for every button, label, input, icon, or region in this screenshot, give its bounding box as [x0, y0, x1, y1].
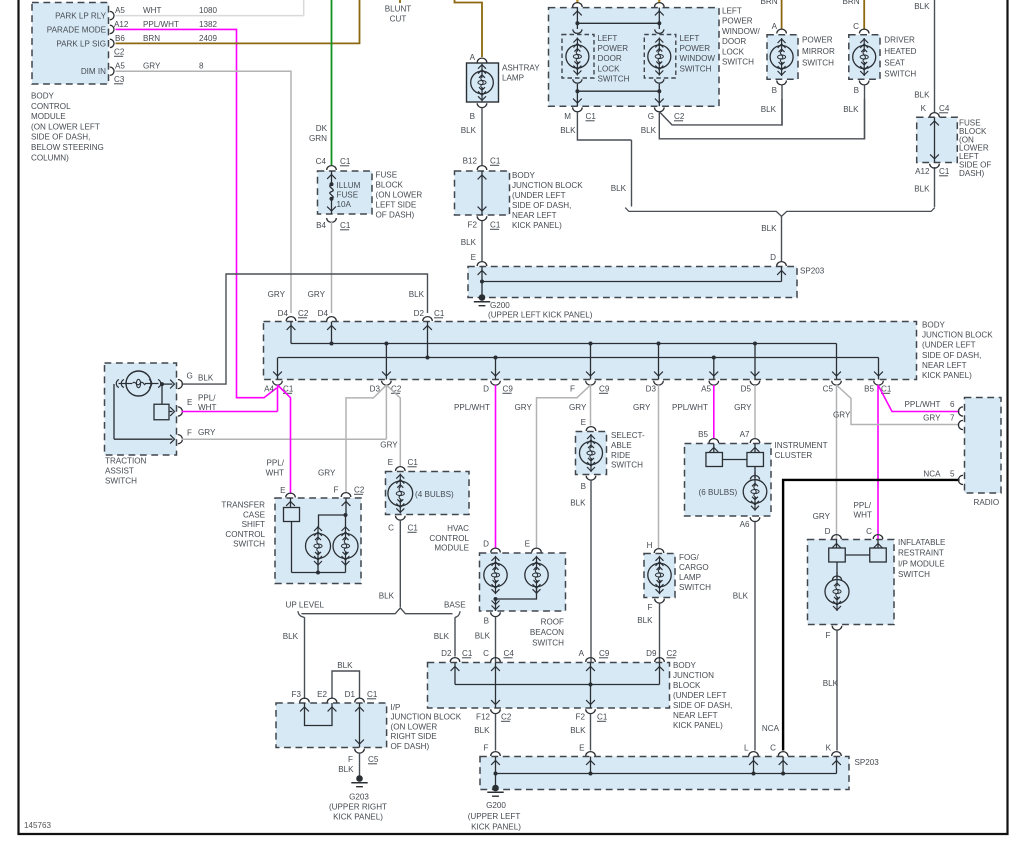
svg-text:POWER: POWER — [802, 36, 833, 45]
svg-text:A5: A5 — [115, 62, 125, 71]
svg-text:F3: F3 — [292, 690, 302, 699]
svg-text:SWITCH: SWITCH — [532, 638, 564, 647]
svg-text:C1: C1 — [462, 649, 473, 658]
svg-text:H: H — [647, 541, 653, 550]
svg-text:LAMP: LAMP — [679, 573, 701, 582]
svg-text:C5: C5 — [368, 755, 379, 764]
svg-text:F2: F2 — [468, 221, 478, 230]
svg-text:A: A — [470, 53, 476, 62]
svg-text:F2: F2 — [576, 713, 586, 722]
svg-text:G200: G200 — [486, 801, 506, 810]
svg-text:C: C — [866, 527, 872, 536]
svg-text:RIDE: RIDE — [611, 451, 631, 460]
svg-text:SP203: SP203 — [800, 267, 825, 276]
svg-text:DOOR: DOOR — [722, 37, 746, 46]
svg-text:ASSIST: ASSIST — [105, 467, 134, 476]
svg-text:C2: C2 — [674, 112, 685, 121]
svg-text:(UPPER RIGHT: (UPPER RIGHT — [329, 803, 387, 812]
svg-text:B: B — [772, 86, 777, 95]
svg-text:2409: 2409 — [199, 34, 218, 43]
svg-text:BLK: BLK — [761, 224, 777, 233]
svg-text:POWER: POWER — [680, 44, 711, 53]
svg-text:A12: A12 — [915, 167, 930, 176]
svg-text:WHT: WHT — [266, 468, 284, 477]
svg-text:G: G — [648, 112, 654, 121]
svg-text:SEAT: SEAT — [884, 58, 905, 67]
svg-text:PPL/: PPL/ — [854, 501, 872, 510]
svg-text:A5: A5 — [701, 385, 711, 394]
svg-text:E: E — [581, 418, 587, 427]
svg-text:C1: C1 — [340, 221, 351, 230]
svg-text:MODULE: MODULE — [434, 544, 469, 553]
svg-text:E: E — [187, 398, 193, 407]
svg-text:BODY: BODY — [922, 321, 946, 330]
svg-text:ASHTRAY: ASHTRAY — [502, 64, 540, 73]
svg-text:D4: D4 — [318, 309, 329, 318]
svg-text:BODY: BODY — [673, 661, 697, 670]
svg-text:A6: A6 — [740, 520, 750, 529]
svg-text:D5: D5 — [741, 385, 752, 394]
svg-text:C: C — [853, 22, 859, 31]
svg-text:JUNCTION BLOCK: JUNCTION BLOCK — [391, 713, 462, 722]
svg-text:D2: D2 — [441, 649, 452, 658]
svg-text:BLK: BLK — [461, 126, 477, 135]
svg-text:F: F — [348, 755, 353, 764]
svg-text:(UNDER LEFT: (UNDER LEFT — [922, 341, 976, 350]
svg-text:5: 5 — [950, 470, 955, 479]
svg-text:D: D — [483, 385, 489, 394]
svg-text:GRY: GRY — [633, 403, 651, 412]
svg-text:C: C — [770, 744, 776, 753]
svg-text:(ON LOWER LEFT: (ON LOWER LEFT — [31, 122, 100, 131]
svg-text:FUSE: FUSE — [337, 191, 359, 200]
svg-text:INSTRUMENT: INSTRUMENT — [775, 441, 828, 450]
svg-text:B5: B5 — [698, 430, 708, 439]
svg-text:KICK PANEL): KICK PANEL) — [471, 823, 521, 832]
svg-text:PARADE MODE: PARADE MODE — [47, 25, 107, 34]
svg-text:C1: C1 — [490, 221, 501, 230]
svg-text:BLOCK: BLOCK — [673, 681, 701, 690]
svg-text:WHT: WHT — [854, 511, 872, 520]
svg-text:BLK: BLK — [823, 679, 839, 688]
svg-text:BLK: BLK — [637, 616, 653, 625]
svg-text:BRN: BRN — [143, 34, 160, 43]
svg-text:RIGHT SIDE: RIGHT SIDE — [391, 732, 438, 741]
svg-text:(6 BULBS): (6 BULBS) — [699, 488, 738, 497]
svg-text:C9: C9 — [599, 649, 610, 658]
svg-text:BLUNT: BLUNT — [385, 5, 412, 14]
svg-text:D3: D3 — [646, 385, 657, 394]
svg-text:BLK: BLK — [761, 105, 777, 114]
svg-text:GRY: GRY — [308, 290, 326, 299]
svg-text:JUNCTION BLOCK: JUNCTION BLOCK — [512, 181, 583, 190]
svg-text:C: C — [483, 649, 489, 658]
svg-text:BLK: BLK — [379, 592, 395, 601]
svg-text:SIDE OF DASH,: SIDE OF DASH, — [673, 701, 732, 710]
svg-text:GRY: GRY — [143, 62, 161, 71]
svg-text:D: D — [483, 540, 489, 549]
svg-text:BLK: BLK — [914, 185, 930, 194]
svg-text:MODULE: MODULE — [31, 112, 66, 121]
svg-text:GRN: GRN — [309, 134, 327, 143]
svg-text:F: F — [570, 385, 575, 394]
svg-text:C9: C9 — [599, 385, 610, 394]
svg-text:TRANSFER: TRANSFER — [221, 501, 265, 510]
svg-text:C1: C1 — [490, 157, 501, 166]
svg-text:BLOCK: BLOCK — [376, 181, 404, 190]
svg-text:B4: B4 — [316, 221, 326, 230]
svg-text:CONTROL: CONTROL — [31, 102, 71, 111]
svg-text:E: E — [471, 253, 477, 262]
svg-text:F: F — [484, 744, 489, 753]
svg-text:CUT: CUT — [390, 15, 407, 24]
svg-text:D1: D1 — [345, 690, 356, 699]
svg-text:SWITCH: SWITCH — [679, 583, 711, 592]
svg-text:C2: C2 — [298, 309, 309, 318]
svg-text:PPL/: PPL/ — [266, 459, 284, 468]
svg-text:SWITCH: SWITCH — [611, 461, 643, 470]
svg-text:DK: DK — [316, 124, 328, 133]
svg-text:C4: C4 — [939, 104, 950, 113]
svg-text:BLK: BLK — [914, 2, 930, 11]
svg-text:BLK: BLK — [283, 632, 299, 641]
svg-text:PPL/WHT: PPL/WHT — [454, 403, 490, 412]
svg-text:F: F — [187, 429, 192, 438]
svg-text:C1: C1 — [367, 690, 378, 699]
svg-text:10A: 10A — [337, 200, 352, 209]
svg-text:BLK: BLK — [641, 126, 657, 135]
svg-text:ABLE: ABLE — [611, 441, 632, 450]
svg-text:WINDOW: WINDOW — [680, 54, 716, 63]
svg-text:BLK: BLK — [461, 238, 477, 247]
svg-text:C2: C2 — [667, 649, 678, 658]
svg-text:DIM IN: DIM IN — [81, 67, 106, 76]
svg-text:SHIFT: SHIFT — [242, 520, 265, 529]
svg-text:A12: A12 — [114, 20, 129, 29]
svg-text:BLK: BLK — [733, 592, 749, 601]
svg-text:E2: E2 — [317, 690, 327, 699]
svg-text:B: B — [470, 112, 475, 121]
svg-text:C2: C2 — [501, 713, 512, 722]
svg-text:KICK PANEL): KICK PANEL) — [673, 721, 723, 730]
svg-text:HEATED: HEATED — [884, 47, 916, 56]
svg-text:BLK: BLK — [570, 499, 586, 508]
svg-text:SIDE OF DASH,: SIDE OF DASH, — [31, 133, 90, 142]
svg-text:BLK: BLK — [198, 374, 214, 383]
svg-text:BLK: BLK — [338, 765, 354, 774]
svg-text:CARGO: CARGO — [679, 563, 709, 572]
svg-text:PARK LP SIG: PARK LP SIG — [56, 39, 106, 48]
svg-text:BLK: BLK — [611, 184, 627, 193]
svg-text:ILLUM: ILLUM — [337, 181, 361, 190]
svg-text:GRY: GRY — [198, 428, 216, 437]
svg-text:GRY: GRY — [923, 414, 941, 423]
svg-text:BLK: BLK — [560, 126, 576, 135]
svg-text:WHT: WHT — [143, 6, 161, 15]
svg-text:FOG/: FOG/ — [679, 553, 700, 562]
svg-text:G203: G203 — [349, 793, 369, 802]
svg-text:C3: C3 — [114, 75, 125, 84]
svg-text:OF DASH): OF DASH) — [391, 742, 430, 751]
svg-text:C2: C2 — [391, 385, 402, 394]
svg-text:G200: G200 — [490, 301, 510, 310]
svg-text:L: L — [744, 744, 749, 753]
svg-text:UP LEVEL: UP LEVEL — [286, 601, 325, 610]
svg-text:BELOW STEERING: BELOW STEERING — [31, 143, 104, 152]
svg-text:CASE: CASE — [243, 510, 266, 519]
svg-text:NCA: NCA — [762, 724, 780, 733]
svg-text:KICK PANEL): KICK PANEL) — [922, 371, 972, 380]
svg-text:CLUSTER: CLUSTER — [775, 451, 813, 460]
svg-text:1382: 1382 — [199, 20, 218, 29]
svg-text:SWITCH: SWITCH — [898, 570, 930, 579]
svg-text:(ON LOWER: (ON LOWER — [376, 191, 423, 200]
svg-text:LEFT SIDE: LEFT SIDE — [376, 201, 417, 210]
svg-text:PPL/WHT: PPL/WHT — [672, 403, 708, 412]
svg-text:SWITCH: SWITCH — [884, 70, 916, 79]
svg-text:K: K — [921, 104, 927, 113]
svg-text:A: A — [579, 649, 585, 658]
svg-text:BLK: BLK — [337, 661, 353, 670]
svg-text:C4: C4 — [316, 157, 327, 166]
svg-text:GRY: GRY — [268, 290, 286, 299]
svg-text:SWITCH: SWITCH — [598, 74, 630, 83]
svg-text:8: 8 — [199, 62, 204, 71]
svg-text:BLK: BLK — [434, 632, 450, 641]
svg-text:C1: C1 — [408, 524, 419, 533]
svg-text:GRY: GRY — [380, 441, 398, 450]
svg-text:C9: C9 — [503, 385, 514, 394]
svg-text:BLK: BLK — [409, 290, 425, 299]
svg-text:C5: C5 — [823, 385, 834, 394]
svg-text:NEAR LEFT: NEAR LEFT — [673, 711, 718, 720]
svg-text:GRY: GRY — [318, 468, 336, 477]
svg-text:MIRROR: MIRROR — [802, 47, 835, 56]
svg-text:BLK: BLK — [914, 91, 930, 100]
svg-text:GRY: GRY — [833, 411, 851, 420]
svg-text:RESTRAINT: RESTRAINT — [898, 549, 944, 558]
svg-text:SELECT-: SELECT- — [611, 431, 645, 440]
svg-text:LOCK: LOCK — [598, 64, 621, 73]
svg-text:6: 6 — [950, 400, 955, 409]
svg-text:PARK LP RLY: PARK LP RLY — [55, 11, 106, 20]
svg-text:145763: 145763 — [24, 821, 52, 830]
svg-text:LAMP: LAMP — [502, 74, 524, 83]
svg-text:C: C — [388, 524, 394, 533]
svg-text:PPL/: PPL/ — [198, 394, 216, 403]
svg-text:C1: C1 — [408, 458, 419, 467]
svg-text:A4: A4 — [264, 385, 274, 394]
svg-text:C1: C1 — [340, 157, 351, 166]
svg-text:D: D — [770, 253, 776, 262]
svg-text:(UPPER LEFT: (UPPER LEFT — [468, 812, 521, 821]
svg-text:BLK: BLK — [570, 726, 586, 735]
svg-text:GRY: GRY — [813, 512, 831, 521]
svg-text:D2: D2 — [414, 309, 425, 318]
svg-text:(UNDER LEFT: (UNDER LEFT — [673, 691, 727, 700]
svg-text:DOOR: DOOR — [598, 54, 622, 63]
svg-text:BLK: BLK — [475, 632, 491, 641]
svg-text:B: B — [484, 617, 489, 626]
svg-text:HVAC: HVAC — [447, 524, 469, 533]
svg-text:GRY: GRY — [734, 403, 752, 412]
svg-text:C1: C1 — [434, 309, 445, 318]
svg-text:POWER: POWER — [722, 17, 753, 26]
svg-text:KICK PANEL): KICK PANEL) — [512, 221, 562, 230]
svg-text:E: E — [280, 486, 286, 495]
svg-text:SWITCH: SWITCH — [105, 477, 137, 486]
svg-text:E: E — [388, 458, 394, 467]
svg-text:CONTROL: CONTROL — [429, 534, 469, 543]
svg-text:PPL/WHT: PPL/WHT — [905, 400, 941, 409]
svg-text:(UNDER LEFT: (UNDER LEFT — [512, 191, 566, 200]
svg-text:BASE: BASE — [444, 601, 466, 610]
svg-text:LEFT: LEFT — [598, 34, 618, 43]
svg-text:LOCK: LOCK — [722, 47, 745, 56]
svg-text:OF DASH): OF DASH) — [376, 211, 415, 220]
svg-text:D4: D4 — [278, 309, 289, 318]
svg-text:BODY: BODY — [31, 92, 55, 101]
svg-text:C4: C4 — [504, 649, 515, 658]
svg-text:C2: C2 — [354, 486, 365, 495]
svg-text:B: B — [854, 86, 859, 95]
svg-text:SWITCH: SWITCH — [802, 58, 834, 67]
svg-text:BLK: BLK — [843, 105, 859, 114]
svg-text:SWITCH: SWITCH — [722, 58, 754, 67]
svg-text:KICK PANEL): KICK PANEL) — [333, 813, 383, 822]
svg-text:(ON LOWER: (ON LOWER — [391, 722, 438, 731]
svg-text:BLK: BLK — [474, 726, 490, 735]
svg-text:PPL/WHT: PPL/WHT — [143, 20, 179, 29]
svg-text:FUSE: FUSE — [376, 171, 398, 180]
svg-text:BEACON: BEACON — [530, 628, 564, 637]
svg-text:G: G — [187, 372, 193, 381]
svg-text:A: A — [772, 22, 778, 31]
svg-text:DASH): DASH) — [959, 169, 984, 178]
svg-text:A7: A7 — [740, 430, 750, 439]
svg-text:COLUMN): COLUMN) — [31, 153, 69, 162]
svg-text:B: B — [581, 482, 586, 491]
svg-text:NEAR LEFT: NEAR LEFT — [922, 361, 967, 370]
svg-text:B12: B12 — [463, 157, 478, 166]
svg-text:WINDOW/: WINDOW/ — [722, 27, 761, 36]
svg-text:F: F — [334, 486, 339, 495]
svg-text:I/P MODULE: I/P MODULE — [898, 559, 945, 568]
svg-text:BRN: BRN — [843, 0, 860, 6]
svg-text:1080: 1080 — [199, 6, 218, 15]
svg-text:SIDE OF DASH,: SIDE OF DASH, — [512, 201, 571, 210]
svg-text:SWITCH: SWITCH — [680, 64, 712, 73]
svg-text:POWER: POWER — [598, 44, 629, 53]
svg-text:JUNCTION: JUNCTION — [673, 671, 714, 680]
svg-text:WHT: WHT — [198, 403, 216, 412]
svg-text:F: F — [826, 631, 831, 640]
svg-text:M: M — [564, 112, 571, 121]
svg-text:E: E — [579, 744, 585, 753]
svg-text:F: F — [648, 603, 653, 612]
svg-text:SIDE OF DASH,: SIDE OF DASH, — [922, 351, 981, 360]
svg-text:E: E — [525, 540, 531, 549]
svg-text:F12: F12 — [476, 713, 490, 722]
svg-text:C2: C2 — [114, 48, 125, 57]
svg-text:SWITCH: SWITCH — [233, 540, 265, 549]
svg-text:CONTROL: CONTROL — [225, 530, 265, 539]
svg-text:ROOF: ROOF — [541, 618, 564, 627]
svg-text:NCA: NCA — [923, 470, 941, 479]
svg-text:TRACTION: TRACTION — [105, 457, 147, 466]
svg-text:C1: C1 — [597, 713, 608, 722]
svg-text:D9: D9 — [646, 649, 657, 658]
svg-text:DRIVER: DRIVER — [884, 36, 915, 45]
svg-text:JUNCTION BLOCK: JUNCTION BLOCK — [922, 331, 993, 340]
svg-text:BODY: BODY — [512, 171, 536, 180]
svg-text:D: D — [825, 527, 831, 536]
svg-text:LEFT: LEFT — [722, 7, 742, 16]
svg-text:C1: C1 — [939, 167, 950, 176]
svg-text:B6: B6 — [115, 34, 125, 43]
svg-text:RADIO: RADIO — [974, 498, 1000, 507]
svg-text:(4 BULBS): (4 BULBS) — [415, 490, 454, 499]
svg-text:INFLATABLE: INFLATABLE — [898, 538, 946, 547]
svg-text:SP203: SP203 — [855, 758, 880, 767]
svg-text:A5: A5 — [115, 6, 125, 15]
svg-text:BRN: BRN — [761, 0, 778, 6]
svg-text:LEFT: LEFT — [680, 34, 700, 43]
svg-text:(UPPER LEFT KICK PANEL): (UPPER LEFT KICK PANEL) — [488, 311, 593, 320]
svg-text:GRY: GRY — [569, 403, 587, 412]
svg-text:I/P: I/P — [391, 703, 401, 712]
svg-text:C1: C1 — [586, 112, 597, 121]
svg-text:K: K — [826, 744, 832, 753]
svg-text:B5: B5 — [864, 385, 874, 394]
svg-text:NEAR LEFT: NEAR LEFT — [512, 211, 557, 220]
svg-text:GRY: GRY — [515, 403, 533, 412]
svg-text:7: 7 — [950, 414, 955, 423]
